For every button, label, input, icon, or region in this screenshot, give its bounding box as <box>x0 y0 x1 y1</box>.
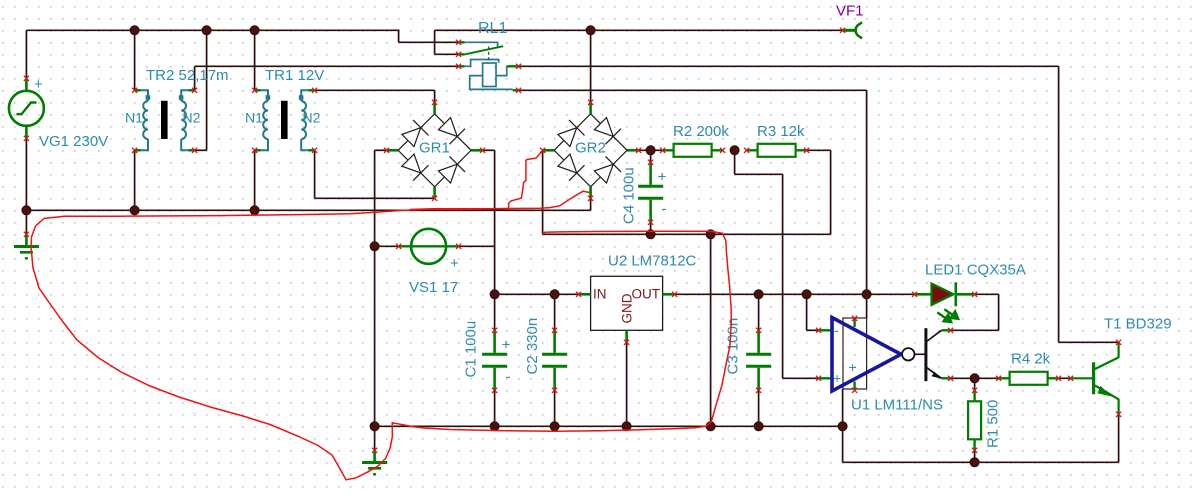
red net wire branch to GR2 left pin <box>410 152 542 210</box>
wire GR2 right horiz <box>639 149 663 151</box>
wire RL1 pin5 to U1 V+ vert <box>866 90 868 294</box>
junction node (806,294) <box>802 290 811 299</box>
svg-text:TR2 52,17m: TR2 52,17m <box>146 67 229 84</box>
svg-text:-: - <box>662 200 667 217</box>
wire TR1 N2 bottom vert <box>314 150 316 198</box>
junction node (974,378) <box>970 374 979 383</box>
wire GR2 top vert <box>590 30 592 102</box>
svg-text:-: - <box>506 368 511 385</box>
bridge rectifier GR1 <box>398 114 471 187</box>
wire Q emitter to R4 row <box>951 377 1071 379</box>
wire top rail from VG1 <box>26 29 398 31</box>
junction node (626,426) <box>622 422 631 431</box>
svg-text:R2 200k: R2 200k <box>673 123 729 140</box>
resistor R3 <box>744 144 809 157</box>
comparator U1 LM111 <box>816 316 925 393</box>
junction node (866,294) <box>862 290 871 299</box>
junction node (710,234) <box>706 230 715 239</box>
junction node (494,294) <box>490 290 499 299</box>
svg-text:C4 100u: C4 100u <box>621 167 638 224</box>
wire TR2 N1 top vert <box>134 30 136 90</box>
svg-text:C2 330n: C2 330n <box>524 318 541 375</box>
ground left <box>14 232 39 259</box>
transformer TR2 <box>138 90 192 150</box>
wire GR1 left stub <box>375 149 387 151</box>
wire R2R3 junction vert <box>734 150 736 174</box>
wire GR1 left to ground vert <box>374 150 376 450</box>
junction node (650,234) <box>646 230 655 239</box>
junction node (554,294) <box>550 290 559 299</box>
wire GR1 right down vert <box>494 150 496 246</box>
wire bottom bus y462 <box>843 461 1119 463</box>
junction node (842,426) <box>838 422 847 431</box>
junction node (974,462) <box>970 458 979 467</box>
svg-text:VG1 230V: VG1 230V <box>39 133 108 150</box>
svg-text:TR1 12V: TR1 12V <box>265 67 324 84</box>
wire Q collector horiz <box>951 329 999 331</box>
wire TR1 N2 top to GR1 top horiz <box>315 89 435 91</box>
junction node (134,30) <box>130 26 139 35</box>
wire C1 col lower <box>494 390 496 426</box>
junction node (134,210) <box>130 206 139 215</box>
wire GR1 right stub <box>483 149 495 151</box>
svg-text:R1 500: R1 500 <box>985 400 1002 448</box>
junction node (758,426) <box>754 422 763 431</box>
red net wire main loop <box>31 191 731 480</box>
capacitor C2 <box>542 328 567 393</box>
wire U1 V- vert <box>842 389 844 426</box>
wire bus drop right <box>842 426 844 462</box>
wire RL1 pin2 horiz <box>435 53 459 55</box>
bridge rectifier GR2 <box>554 114 627 187</box>
wire T1 collector horiz <box>1059 341 1119 343</box>
junction node (590,30) <box>586 26 595 35</box>
capacitor C4 <box>638 160 663 225</box>
wire C3 col upper <box>758 294 760 330</box>
junction node (758,294) <box>754 290 763 299</box>
wire +input vert <box>782 174 784 378</box>
wire GR2 left vert <box>542 150 544 234</box>
ground middle <box>362 448 387 475</box>
svg-text:OUT: OUT <box>632 287 661 302</box>
wire VG1 bottom vert <box>25 138 27 210</box>
wire GR1 top vert <box>434 90 436 102</box>
relay RL1 <box>456 40 521 93</box>
svg-text:+: + <box>502 336 511 353</box>
wire T1 collector drop <box>1058 66 1060 342</box>
capacitor C3 <box>746 328 771 393</box>
wire R3 right vert <box>830 150 832 234</box>
wire C3 col lower <box>758 390 760 426</box>
wire TR1 N2 to GR1 bottom horiz <box>315 197 435 199</box>
wire TR1 N1 bottom vert <box>254 150 256 210</box>
svg-text:GR2: GR2 <box>575 140 606 157</box>
junction node (734,150) <box>730 146 739 155</box>
wire jog down at x398 <box>398 30 400 43</box>
junction node (374,246) <box>370 242 379 251</box>
wire TR2 N2 top to RL1 pin3 vert <box>194 66 196 90</box>
junction node (650,150) <box>646 146 655 155</box>
junction node (554,426) <box>550 422 559 431</box>
svg-text:R4 2k: R4 2k <box>1011 351 1051 368</box>
resistor R4 <box>996 372 1061 385</box>
svg-text:GND: GND <box>620 293 635 323</box>
wire R2R3 to +input horiz <box>735 173 783 175</box>
svg-text:N1: N1 <box>245 110 263 126</box>
wire LED out horiz <box>975 293 999 295</box>
wire jog to RL1 pin1 <box>399 41 459 43</box>
junction node (26,210) <box>22 206 31 215</box>
wire TR1 N1 top vert <box>254 30 256 90</box>
svg-text:C3 100n: C3 100n <box>725 318 742 375</box>
wire T1 emitter vert <box>1118 414 1120 462</box>
wire C2 col lower <box>554 390 556 426</box>
resistor R1 <box>968 388 981 453</box>
capacitor C1 <box>482 328 507 393</box>
junction node (710,426) <box>706 422 715 431</box>
svg-text:+: + <box>849 359 857 375</box>
junction node (494,426) <box>490 422 499 431</box>
U1 output transistor <box>926 328 953 382</box>
svg-text:VF1: VF1 <box>836 3 864 20</box>
wire VS1 left horiz <box>375 245 399 247</box>
svg-text:N2: N2 <box>303 110 321 126</box>
svg-text:N2: N2 <box>183 110 201 126</box>
junction node (206,30) <box>202 26 211 35</box>
svg-text:LED1 CQX35A: LED1 CQX35A <box>925 262 1026 279</box>
svg-text:R3 12k: R3 12k <box>757 123 805 140</box>
wire -input horiz <box>807 329 819 331</box>
svg-text:+: + <box>34 76 43 93</box>
wire VG1 top vert <box>25 30 27 78</box>
probe VF1 <box>840 22 862 38</box>
wire TR2 N1 bottom vert <box>134 150 136 210</box>
wire VS1 right horiz <box>459 245 495 247</box>
wire top rail GR1seg to GR2/VF1 <box>435 29 843 31</box>
svg-text:C1 100u: C1 100u <box>463 321 480 378</box>
transistor T1 BD329 <box>1068 340 1121 417</box>
wire U1 V+ vert <box>866 294 868 318</box>
generator VG1 <box>9 76 44 141</box>
wire U2 GND vert <box>626 342 628 426</box>
svg-text:+: + <box>658 168 667 185</box>
svg-text:VS1 17: VS1 17 <box>409 279 458 296</box>
wire bus y234 <box>543 233 831 235</box>
wire RL1 pin2 drop <box>434 30 436 54</box>
wire U2 IN horiz <box>495 293 579 295</box>
svg-text:IN: IN <box>593 287 607 302</box>
wire LED out vert <box>998 294 1000 330</box>
wire TR2 N2 bottom stub <box>195 149 207 151</box>
regulator U2 LM7812C <box>576 276 677 345</box>
wire C4 top lead <box>650 150 652 162</box>
svg-text:+: + <box>833 370 841 386</box>
wire mid ground bus y426 <box>375 425 843 427</box>
wire RL1 pin4 to T1 collector horiz <box>519 65 1059 67</box>
wire R1 bottom lead <box>974 450 976 462</box>
junction node (374,426) <box>370 422 379 431</box>
wire GR2 bottom vert <box>590 198 592 210</box>
wire VG1 to ground left <box>25 210 27 234</box>
svg-text:T1 BD329: T1 BD329 <box>1104 316 1172 333</box>
transformer TR1 <box>258 90 312 150</box>
source VS1 <box>396 229 461 272</box>
junction node (254,30) <box>250 26 259 35</box>
svg-text:U2 LM7812C: U2 LM7812C <box>608 253 697 270</box>
svg-text:U1 LM111/NS: U1 LM111/NS <box>851 397 943 414</box>
svg-text:RL1: RL1 <box>478 20 507 37</box>
resistor R2 <box>660 144 725 157</box>
svg-text:N1: N1 <box>125 110 143 126</box>
wire R3 right horiz <box>807 149 831 151</box>
LED1 <box>912 282 977 322</box>
wire C1 col upper <box>494 246 496 330</box>
wire C2 col upper <box>554 294 556 330</box>
wire TR2 N2 top to RL1 pin3 horiz <box>195 65 459 67</box>
wire U2 OUT row <box>675 293 915 295</box>
wire ground bus y210 <box>26 209 590 211</box>
wire +input horiz <box>783 377 819 379</box>
wire C4 bottom lead <box>650 222 652 234</box>
junction node (254,210) <box>250 206 259 215</box>
wire RL1 pin5 horiz <box>519 89 867 91</box>
svg-text:GR1: GR1 <box>419 140 450 157</box>
wire R1 top lead <box>974 378 976 390</box>
svg-text:-: - <box>834 322 839 338</box>
wire divider mid vert <box>710 234 712 426</box>
wire TR2 N2 bottom vert <box>206 30 208 150</box>
wire -input drop <box>806 294 808 330</box>
svg-text:+: + <box>450 255 459 272</box>
